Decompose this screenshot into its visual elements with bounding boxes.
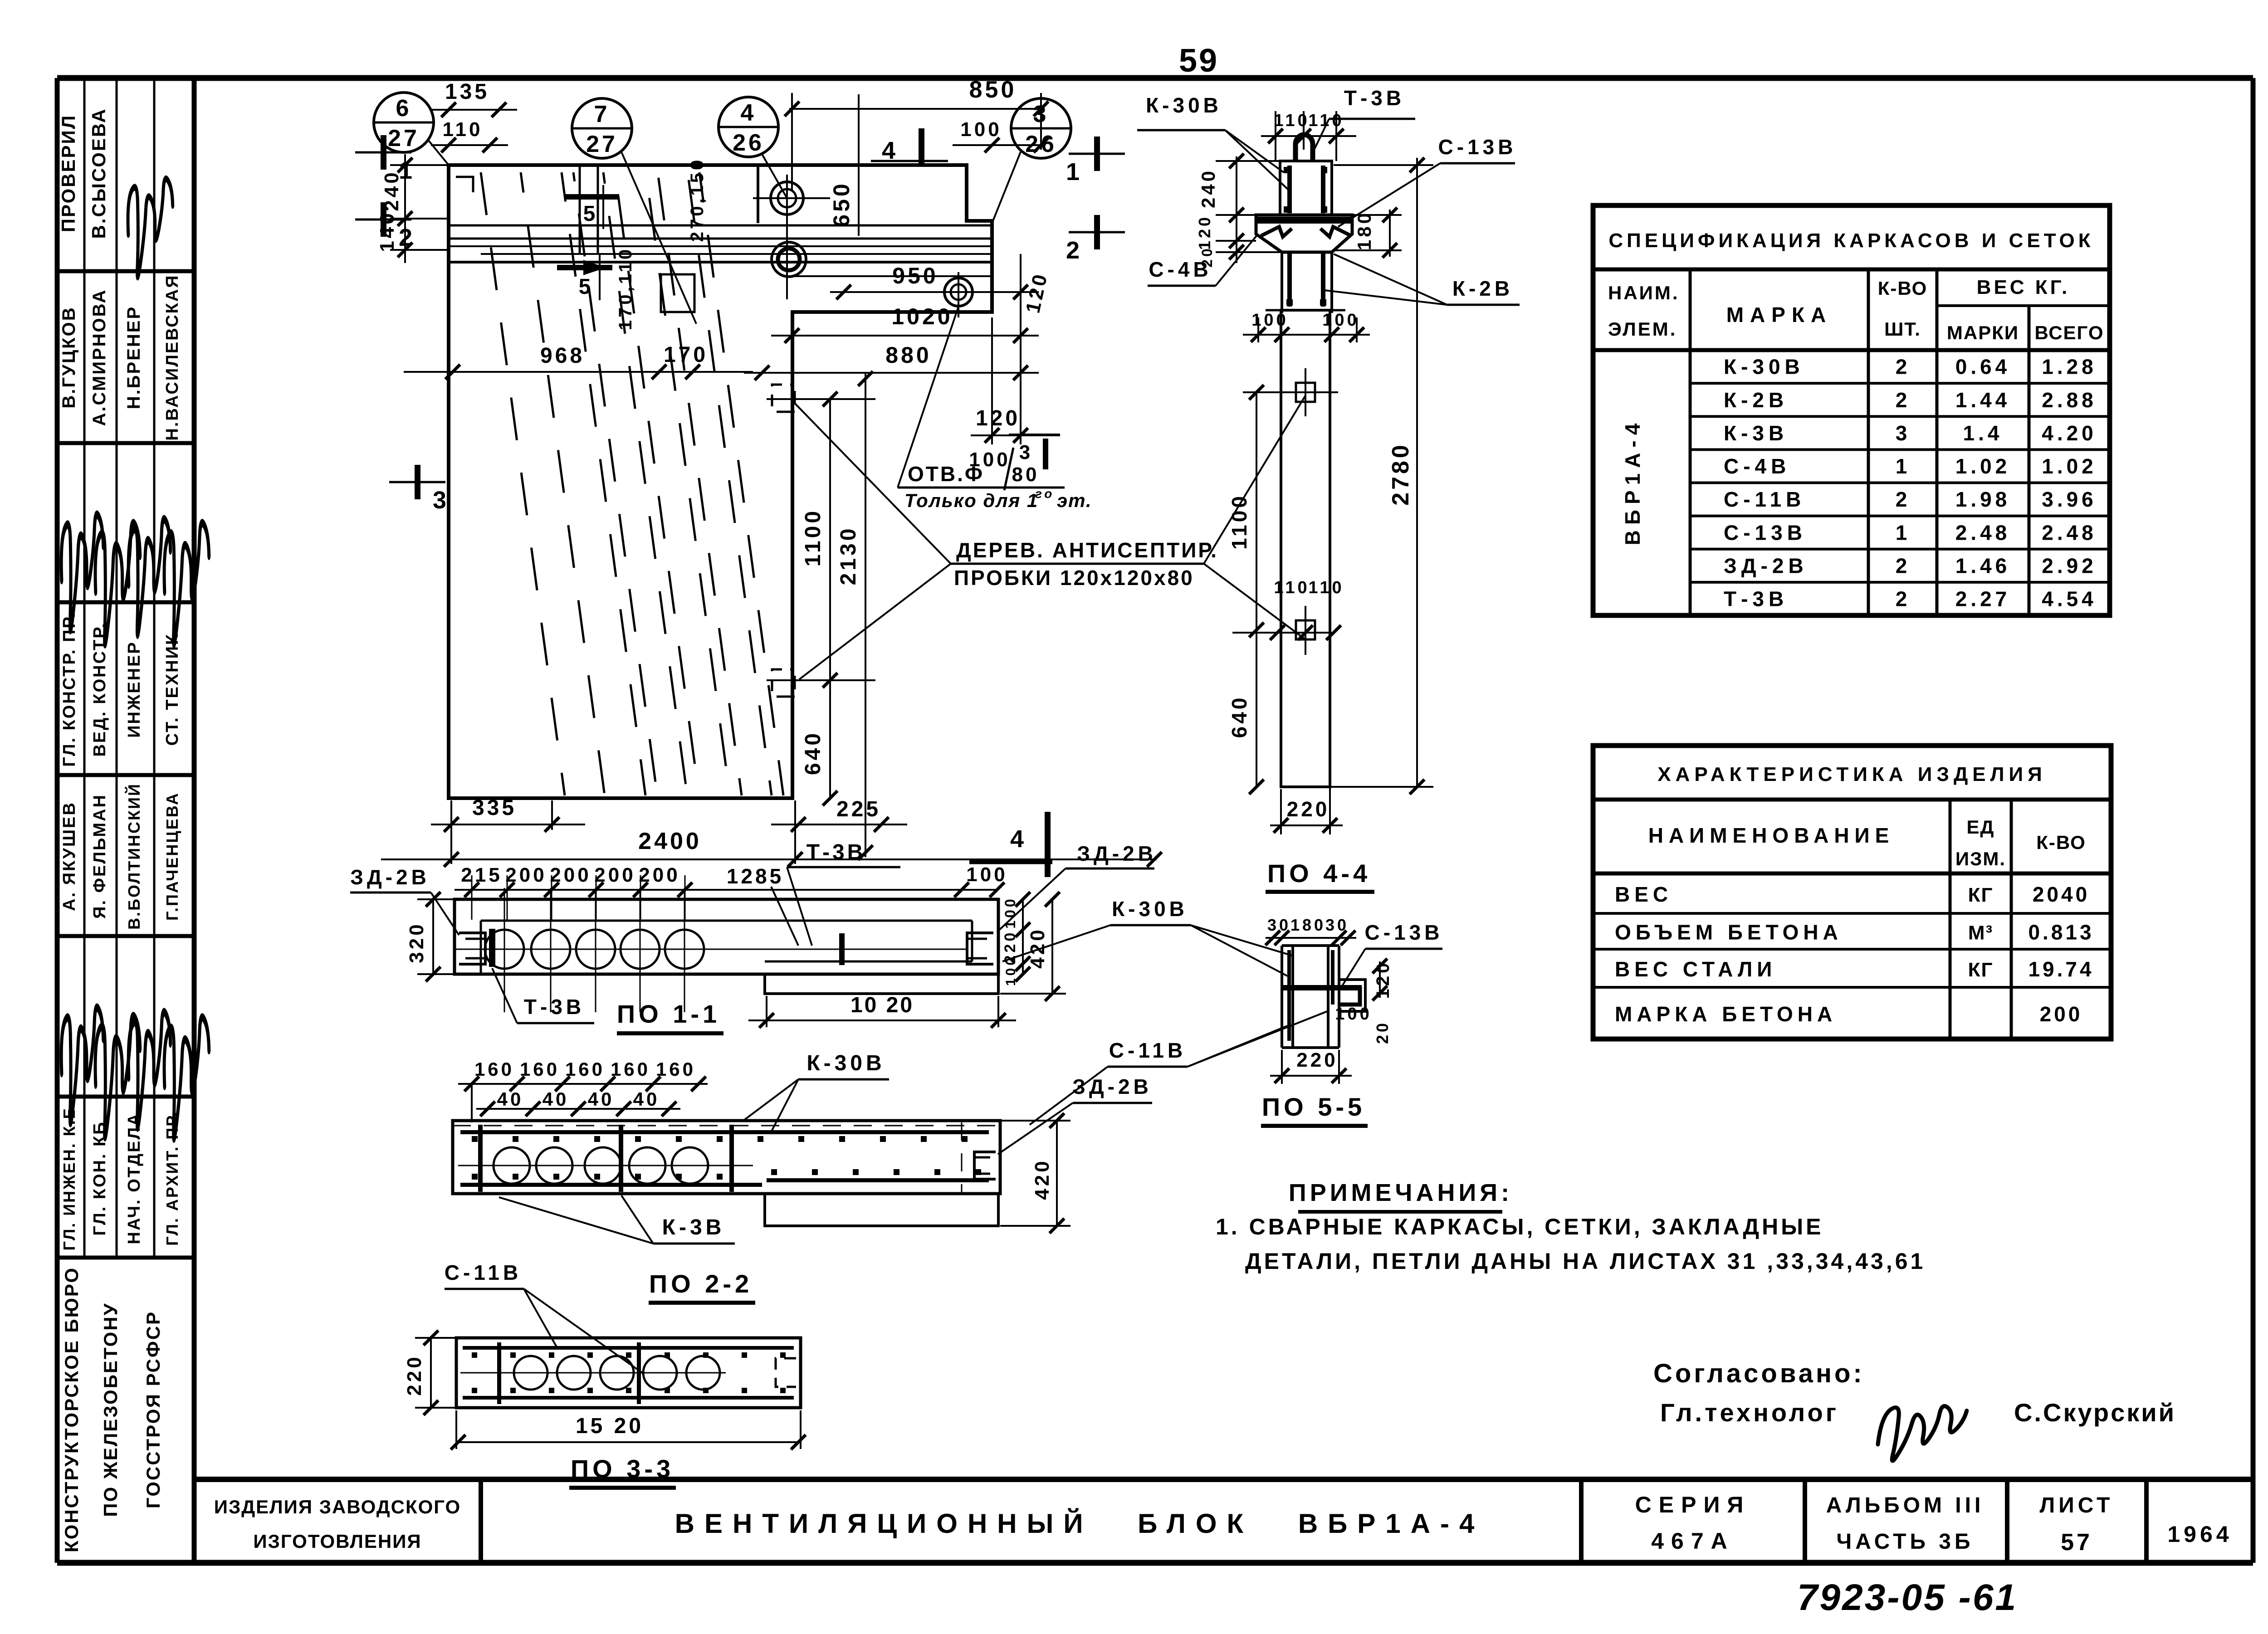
svg-text:2: 2 xyxy=(1896,488,1910,511)
svg-text:Т-3В: Т-3В xyxy=(1724,587,1788,611)
svg-text:2: 2 xyxy=(1896,355,1910,379)
svg-text:3: 3 xyxy=(1019,441,1033,463)
svg-text:С-13В: С-13В xyxy=(1365,921,1443,944)
svg-text:3.96: 3.96 xyxy=(2042,488,2097,511)
svg-text:ЗД-2В: ЗД-2В xyxy=(1724,554,1808,577)
svg-text:19.74: 19.74 xyxy=(2028,957,2094,981)
svg-text:НАИМ.: НАИМ. xyxy=(1608,282,1680,303)
svg-text:АЛЬБОМ III: АЛЬБОМ III xyxy=(1826,1493,1984,1517)
svg-text:Согласовано:: Согласовано: xyxy=(1653,1359,1865,1388)
svg-text:1.02: 1.02 xyxy=(2042,454,2097,478)
svg-text:ИЗМ.: ИЗМ. xyxy=(1955,848,2006,869)
svg-text:170,110: 170,110 xyxy=(616,247,635,330)
svg-text:1.44: 1.44 xyxy=(1955,388,2011,412)
svg-text:2.88: 2.88 xyxy=(2042,388,2097,412)
svg-text:27: 27 xyxy=(388,125,420,151)
svg-text:2130: 2130 xyxy=(836,526,860,585)
svg-text:110: 110 xyxy=(443,118,483,141)
svg-text:1100: 1100 xyxy=(801,508,825,566)
svg-text:26: 26 xyxy=(733,130,764,156)
svg-text:А. ЯКУШЕВ: А. ЯКУШЕВ xyxy=(60,801,79,911)
svg-text:ИЗДЕЛИЯ ЗАВОДСКОГО: ИЗДЕЛИЯ ЗАВОДСКОГО xyxy=(214,1496,461,1517)
svg-text:4: 4 xyxy=(882,137,898,164)
svg-text:2: 2 xyxy=(1896,554,1910,577)
svg-text:100: 100 xyxy=(1335,1005,1372,1024)
svg-text:К-2В: К-2В xyxy=(1724,388,1788,412)
svg-text:1.28: 1.28 xyxy=(2042,355,2097,379)
svg-text:40: 40 xyxy=(497,1088,524,1110)
svg-text:ЭЛЕМ.: ЭЛЕМ. xyxy=(1608,318,1677,340)
svg-text:МАРКИ: МАРКИ xyxy=(1947,322,2019,343)
svg-text:200: 200 xyxy=(2040,1002,2083,1026)
svg-text:160: 160 xyxy=(656,1058,696,1080)
svg-text:ОБЪЕМ БЕТОНА: ОБЪЕМ БЕТОНА xyxy=(1615,921,1843,944)
svg-text:ПРОБКИ 120х120х80: ПРОБКИ 120х120х80 xyxy=(954,566,1194,590)
svg-text:ЗД-2В: ЗД-2В xyxy=(350,865,430,889)
svg-text:2: 2 xyxy=(1066,237,1082,264)
svg-text:40: 40 xyxy=(543,1088,569,1110)
svg-text:59: 59 xyxy=(1179,43,1219,79)
svg-text:2: 2 xyxy=(399,224,415,251)
svg-text:1.02: 1.02 xyxy=(1955,454,2011,478)
svg-text:А.СМИРНОВА: А.СМИРНОВА xyxy=(89,289,109,426)
svg-text:1.46: 1.46 xyxy=(1955,554,2011,577)
svg-text:1020: 1020 xyxy=(891,304,953,329)
svg-text:ПО 3-3: ПО 3-3 xyxy=(571,1454,674,1483)
svg-text:120: 120 xyxy=(1373,961,1393,999)
svg-text:110: 110 xyxy=(1274,578,1310,597)
svg-text:200: 200 xyxy=(505,864,547,886)
svg-text:110: 110 xyxy=(1308,578,1344,597)
svg-text:го: го xyxy=(1035,487,1055,501)
svg-text:ЕД: ЕД xyxy=(1967,816,1995,838)
svg-text:ПО ЖЕЛЕЗОБЕТОНУ: ПО ЖЕЛЕЗОБЕТОНУ xyxy=(100,1302,121,1517)
svg-text:140: 140 xyxy=(376,210,398,252)
svg-text:4: 4 xyxy=(741,100,757,126)
svg-text:2.27: 2.27 xyxy=(1955,587,2011,611)
svg-text:240: 240 xyxy=(1198,168,1219,208)
svg-text:МАРКА БЕТОНА: МАРКА БЕТОНА xyxy=(1615,1002,1837,1026)
svg-text:СПЕЦИФИКАЦИЯ КАРКАСОВ И СЕТОК: СПЕЦИФИКАЦИЯ КАРКАСОВ И СЕТОК xyxy=(1608,229,2094,252)
svg-text:ИНЖЕНЕР: ИНЖЕНЕР xyxy=(125,641,144,738)
svg-text:ГЛ. КОНСТР. ПР.: ГЛ. КОНСТР. ПР. xyxy=(60,612,79,767)
svg-text:К-30В: К-30В xyxy=(1112,897,1188,921)
svg-text:200: 200 xyxy=(639,864,680,886)
svg-text:НАЧ. ОТДЕЛА: НАЧ. ОТДЕЛА xyxy=(125,1112,144,1244)
svg-text:С-11В: С-11В xyxy=(1109,1039,1186,1062)
svg-text:К-30В: К-30В xyxy=(807,1051,885,1075)
svg-text:15 20: 15 20 xyxy=(576,1414,644,1438)
svg-text:Т-3В: Т-3В xyxy=(1344,86,1405,110)
svg-text:5: 5 xyxy=(583,202,598,226)
svg-text:эт.: эт. xyxy=(1057,490,1092,511)
svg-text:120: 120 xyxy=(976,406,1020,430)
svg-text:ВСЕГО: ВСЕГО xyxy=(2034,322,2104,343)
svg-text:2: 2 xyxy=(1896,388,1910,412)
svg-text:100: 100 xyxy=(969,449,1010,471)
svg-text:Только для 1: Только для 1 xyxy=(904,490,1038,511)
svg-text:ВЕС КГ.: ВЕС КГ. xyxy=(1977,276,2070,298)
svg-text:2: 2 xyxy=(1896,587,1910,611)
svg-text:80: 80 xyxy=(1012,463,1040,486)
svg-text:2.92: 2.92 xyxy=(2042,554,2097,577)
svg-text:ДЕТАЛИ, ПЕТЛИ ДАНЫ НА ЛИСТАХ: ДЕТАЛИ, ПЕТЛИ ДАНЫ НА ЛИСТАХ 31 ,33,34,4… xyxy=(1245,1249,1926,1274)
svg-text:ГЛ. КОН. КБ: ГЛ. КОН. КБ xyxy=(90,1121,109,1235)
svg-text:270,150: 270,150 xyxy=(687,157,707,242)
svg-text:ЗД-2В: ЗД-2В xyxy=(1072,1075,1152,1098)
svg-text:1100: 1100 xyxy=(1227,493,1251,550)
svg-text:180: 180 xyxy=(1290,916,1326,934)
svg-text:ГЛ. АРХИТ. ПР.: ГЛ. АРХИТ. ПР. xyxy=(163,1111,181,1246)
svg-text:С-4В: С-4В xyxy=(1724,454,1790,478)
svg-text:К-2В: К-2В xyxy=(1452,277,1513,300)
svg-text:КОНСТРУКТОРСКОЕ БЮРО: КОНСТРУКТОРСКОЕ БЮРО xyxy=(61,1267,82,1552)
svg-text:2400: 2400 xyxy=(638,828,702,854)
svg-text:120: 120 xyxy=(1195,215,1214,250)
svg-text:335: 335 xyxy=(472,796,517,820)
svg-text:4.20: 4.20 xyxy=(2042,421,2097,445)
svg-text:220: 220 xyxy=(1296,1049,1338,1071)
svg-text:2.48: 2.48 xyxy=(2042,521,2097,544)
svg-text:1: 1 xyxy=(399,157,415,184)
svg-text:0.64: 0.64 xyxy=(1955,355,2011,379)
svg-text:200: 200 xyxy=(550,864,591,886)
svg-text:МАРКА: МАРКА xyxy=(1726,303,1833,327)
svg-text:ГОССТРОЯ РСФСР: ГОССТРОЯ РСФСР xyxy=(142,1311,164,1508)
svg-text:180: 180 xyxy=(1354,210,1375,250)
svg-text:ВЕС СТАЛИ: ВЕС СТАЛИ xyxy=(1615,957,1776,981)
svg-text:467А: 467А xyxy=(1651,1528,1735,1554)
svg-text:420: 420 xyxy=(1026,927,1049,968)
svg-text:Т-3В: Т-3В xyxy=(524,995,585,1019)
svg-text:968: 968 xyxy=(540,344,585,368)
svg-text:7923-05 -61: 7923-05 -61 xyxy=(1797,1577,2018,1618)
svg-text:С-13В: С-13В xyxy=(1724,521,1807,544)
svg-text:К-3В: К-3В xyxy=(662,1215,725,1239)
svg-text:КГ: КГ xyxy=(1968,959,1994,981)
svg-text:ХАРАКТЕРИСТИКА ИЗДЕЛИЯ: ХАРАКТЕРИСТИКА ИЗДЕЛИЯ xyxy=(1657,763,2047,785)
svg-text:ВЕД. КОНСТР.: ВЕД. КОНСТР. xyxy=(90,622,109,756)
svg-text:160: 160 xyxy=(611,1058,650,1080)
svg-text:1: 1 xyxy=(1066,158,1082,185)
svg-text:215: 215 xyxy=(461,864,502,886)
svg-text:1. СВАРНЫЕ КАРКАСЫ, СЕТКИ, ЗА: 1. СВАРНЫЕ КАРКАСЫ, СЕТКИ, ЗАКЛАДНЫЕ xyxy=(1216,1214,1824,1239)
svg-text:20: 20 xyxy=(1373,1020,1392,1044)
svg-text:4: 4 xyxy=(1010,825,1026,853)
svg-text:7: 7 xyxy=(594,101,610,127)
svg-text:ПО 5-5: ПО 5-5 xyxy=(1262,1093,1365,1121)
svg-text:Я. ФЕЛЬМАН: Я. ФЕЛЬМАН xyxy=(90,794,109,919)
svg-text:40: 40 xyxy=(633,1088,660,1110)
svg-text:КГ: КГ xyxy=(1968,884,1994,906)
svg-text:100: 100 xyxy=(960,118,1002,141)
svg-text:220: 220 xyxy=(403,1354,425,1395)
svg-text:5: 5 xyxy=(579,275,594,299)
svg-text:170: 170 xyxy=(664,343,708,367)
svg-text:С.Скурский: С.Скурский xyxy=(2014,1398,2176,1427)
svg-text:1: 1 xyxy=(1896,521,1910,544)
svg-text:200: 200 xyxy=(594,864,635,886)
svg-text:ПРОВЕРИЛ: ПРОВЕРИЛ xyxy=(58,114,79,232)
svg-text:Т-3В: Т-3В xyxy=(807,840,866,864)
svg-text:650: 650 xyxy=(829,181,854,227)
svg-text:135: 135 xyxy=(445,80,489,104)
svg-text:1.98: 1.98 xyxy=(1955,488,2011,511)
svg-text:220: 220 xyxy=(1287,797,1330,821)
svg-text:2.48: 2.48 xyxy=(1955,521,2011,544)
svg-text:2040: 2040 xyxy=(2033,883,2090,906)
svg-text:27: 27 xyxy=(586,131,618,157)
svg-text:2780: 2780 xyxy=(1388,442,1414,506)
svg-text:К-ВО: К-ВО xyxy=(1878,278,1928,299)
svg-text:1964: 1964 xyxy=(2167,1522,2232,1547)
svg-text:С-13В: С-13В xyxy=(1438,135,1517,159)
svg-text:СЕРИЯ: СЕРИЯ xyxy=(1635,1492,1751,1517)
svg-text:6: 6 xyxy=(396,95,412,122)
svg-text:С-4В: С-4В xyxy=(1149,258,1212,281)
svg-text:100: 100 xyxy=(1003,955,1018,986)
svg-text:40: 40 xyxy=(588,1088,615,1110)
svg-text:4.54: 4.54 xyxy=(2042,587,2097,611)
svg-text:ВЕС: ВЕС xyxy=(1615,883,1672,906)
svg-text:Гл.технолог: Гл.технолог xyxy=(1660,1398,1839,1427)
svg-text:К-30В: К-30В xyxy=(1724,355,1804,379)
svg-text:В.ГУЦКОВ: В.ГУЦКОВ xyxy=(59,306,79,408)
svg-text:160: 160 xyxy=(520,1058,560,1080)
svg-text:640: 640 xyxy=(801,731,825,775)
svg-text:420: 420 xyxy=(1031,1158,1053,1200)
svg-text:ШТ.: ШТ. xyxy=(1884,318,1921,340)
svg-text:Г.ПАЧЕНЦЕВА: Г.ПАЧЕНЦЕВА xyxy=(163,792,181,921)
svg-text:1.4: 1.4 xyxy=(1963,421,2003,445)
svg-text:1285: 1285 xyxy=(727,864,784,888)
svg-text:ПО 1-1: ПО 1-1 xyxy=(617,1000,720,1028)
svg-text:ДЕРЕВ. АНТИСЕПТИР.: ДЕРЕВ. АНТИСЕПТИР. xyxy=(956,538,1218,562)
svg-text:880: 880 xyxy=(885,342,931,368)
svg-text:К-3В: К-3В xyxy=(1724,421,1788,445)
svg-text:ЛИСТ: ЛИСТ xyxy=(2040,1493,2114,1517)
svg-text:100: 100 xyxy=(1322,311,1359,330)
svg-text:ПО 4-4: ПО 4-4 xyxy=(1267,859,1371,888)
svg-text:НАИМЕНОВАНИЕ: НАИМЕНОВАНИЕ xyxy=(1648,824,1895,847)
svg-text:К-30В: К-30В xyxy=(1146,93,1222,117)
svg-text:ВЕНТИЛЯЦИОННЫЙ БЛОК ВБР1А-: ВЕНТИЛЯЦИОННЫЙ БЛОК ВБР1А-4 xyxy=(675,1508,1485,1539)
svg-text:ГЛ. ИНЖЕН. К.Б: ГЛ. ИНЖЕН. К.Б xyxy=(60,1106,78,1250)
svg-text:ЧАСТЬ 3Б: ЧАСТЬ 3Б xyxy=(1836,1530,1974,1554)
svg-text:3: 3 xyxy=(1896,421,1910,445)
svg-text:ВБР1А-4: ВБР1А-4 xyxy=(1621,418,1644,546)
svg-text:0.813: 0.813 xyxy=(2028,921,2094,944)
svg-text:В.БОЛТИНСКИЙ: В.БОЛТИНСКИЙ xyxy=(124,783,143,930)
svg-text:640: 640 xyxy=(1227,695,1251,738)
svg-text:В.СЫСОЕВА: В.СЫСОЕВА xyxy=(88,108,109,239)
svg-text:100: 100 xyxy=(1251,311,1288,330)
svg-text:ПРИМЕЧАНИЯ:: ПРИМЕЧАНИЯ: xyxy=(1289,1179,1513,1206)
svg-text:110: 110 xyxy=(1308,111,1344,130)
svg-text:ПО 2-2: ПО 2-2 xyxy=(649,1269,753,1298)
svg-text:100: 100 xyxy=(966,863,1007,886)
svg-text:950: 950 xyxy=(892,263,938,288)
svg-text:57: 57 xyxy=(2061,1529,2092,1556)
svg-text:ИЗГОТОВЛЕНИЯ: ИЗГОТОВЛЕНИЯ xyxy=(253,1531,421,1552)
svg-text:СТ. ТЕХНИК: СТ. ТЕХНИК xyxy=(163,633,182,746)
svg-text:Н.БРЕНЕР: Н.БРЕНЕР xyxy=(124,306,144,409)
svg-text:М³: М³ xyxy=(1968,922,1993,944)
svg-text:225: 225 xyxy=(836,797,881,821)
svg-text:3: 3 xyxy=(433,487,449,514)
svg-text:100: 100 xyxy=(1002,896,1018,928)
svg-text:К-ВО: К-ВО xyxy=(2036,832,2086,853)
svg-text:160: 160 xyxy=(565,1058,605,1080)
svg-text:320: 320 xyxy=(406,922,428,963)
svg-text:1: 1 xyxy=(1896,454,1910,478)
svg-text:Н.ВАСИЛЕВСКАЯ: Н.ВАСИЛЕВСКАЯ xyxy=(163,274,182,440)
svg-text:850: 850 xyxy=(969,77,1017,103)
svg-text:ЗД-2В: ЗД-2В xyxy=(1077,842,1157,865)
svg-text:10 20: 10 20 xyxy=(850,993,914,1017)
svg-text:С-11В: С-11В xyxy=(1724,488,1805,511)
svg-text:160: 160 xyxy=(474,1058,514,1080)
svg-text:С-11В: С-11В xyxy=(445,1261,522,1284)
